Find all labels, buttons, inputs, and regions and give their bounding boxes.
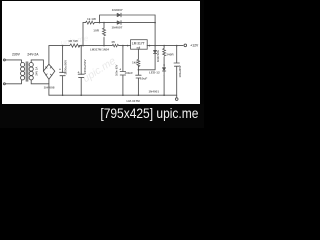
svg-text:+: + [119, 68, 121, 72]
svg-text:100nF: 100nF [125, 71, 134, 75]
svg-text:10R: 10R [93, 29, 99, 33]
svg-text:240R: 240R [166, 53, 174, 57]
svg-text:230V: 230V [12, 53, 21, 57]
svg-text:1k 1W: 1k 1W [87, 17, 96, 21]
svg-text:1N4007: 1N4007 [112, 26, 123, 30]
svg-text:1N4742A: 1N4742A [156, 50, 160, 62]
svg-text:100u/25V: 100u/25V [178, 65, 182, 77]
svg-text:1N4007: 1N4007 [112, 8, 123, 12]
svg-text:LM 317T: LM 317T [132, 41, 145, 45]
svg-text:+12V: +12V [190, 43, 199, 47]
svg-text:adj: adj [137, 45, 141, 49]
svg-text:1N4001: 1N4001 [149, 90, 160, 94]
svg-text:1k5: 1k5 [132, 61, 137, 65]
svg-text:LM-317M: LM-317M [127, 99, 141, 103]
svg-text:+: + [78, 71, 80, 75]
svg-text:1N4008: 1N4008 [44, 85, 55, 89]
svg-text:2200u/50V: 2200u/50V [63, 60, 67, 75]
svg-text:24V 2A: 24V 2A [34, 67, 38, 76]
svg-text:10uF: 10uF [140, 77, 147, 81]
svg-text:24V-2A: 24V-2A [27, 53, 39, 57]
svg-text:LM317M 1N54: LM317M 1N54 [90, 47, 110, 51]
svg-text:+: + [59, 68, 61, 72]
svg-text:R5: R5 [112, 40, 116, 44]
svg-text:LED-12: LED-12 [149, 70, 160, 74]
